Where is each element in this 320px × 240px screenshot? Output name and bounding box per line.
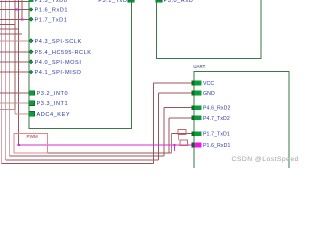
svg-text:P1.6_RxD1: P1.6_RxD1 [35, 7, 69, 13]
svg-text:ADC4_KEY: ADC4_KEY [37, 112, 71, 118]
svg-text:P3.0_RxD: P3.0_RxD [164, 0, 194, 4]
svg-text:VCC: VCC [203, 81, 214, 87]
svg-text:P4.7_TxD2: P4.7_TxD2 [203, 116, 230, 122]
svg-text:P3.2_INT0: P3.2_INT0 [37, 91, 69, 97]
svg-text:P4.0_SPI-MOSI: P4.0_SPI-MOSI [35, 60, 82, 66]
svg-text:GND: GND [203, 91, 215, 97]
svg-text:P1.6_RxD1: P1.6_RxD1 [203, 143, 230, 149]
svg-text:P1.5_TxD0: P1.5_TxD0 [35, 0, 68, 4]
svg-text:P5.4_HC595-RCLK: P5.4_HC595-RCLK [35, 50, 92, 56]
svg-text:P1.7_TxD1: P1.7_TxD1 [203, 132, 230, 138]
svg-text:P4.6_RxD2: P4.6_RxD2 [203, 106, 230, 112]
svg-text:UART: UART [193, 64, 205, 69]
svg-text:P4.1_SPI-MISO: P4.1_SPI-MISO [35, 70, 82, 76]
svg-text:P3.3_INT1: P3.3_INT1 [37, 101, 69, 107]
svg-text:P1.7_TxD1: P1.7_TxD1 [35, 17, 68, 23]
svg-text:PWM: PWM [27, 134, 38, 139]
svg-text:P4.3_SPI-SCLK: P4.3_SPI-SCLK [35, 39, 82, 45]
svg-text:CSDN @LostSpeed: CSDN @LostSpeed [232, 156, 299, 163]
svg-text:P3.1_TxD: P3.1_TxD [98, 0, 127, 4]
